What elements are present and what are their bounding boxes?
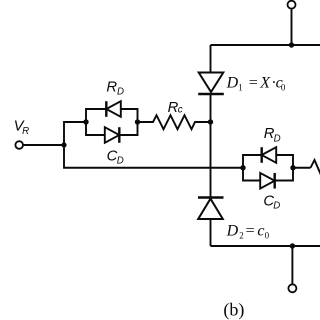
diode RD right (points left): [262, 147, 277, 163]
wire D2 anode lead: [210, 219, 212, 246]
svg-text:D: D: [117, 86, 124, 97]
wire VR input: [23, 144, 64, 146]
node right pair right: [290, 165, 295, 170]
node left pair right: [135, 119, 140, 124]
terminal VR: [15, 141, 23, 149]
label D1 equation: [226, 75, 286, 93]
label D2 equation: [226, 222, 270, 240]
diode RD left (points left): [106, 101, 121, 117]
wire bottom terminal stem: [291, 246, 293, 284]
wire input lower branch to right pair: [64, 145, 243, 168]
wire D1 cathode to D2 cathode: [210, 94, 212, 198]
node right pair left: [240, 165, 245, 170]
node left pair left: [83, 119, 88, 124]
terminal top: [288, 1, 296, 9]
svg-text:D: D: [117, 156, 124, 167]
wire bottom rail: [211, 245, 320, 247]
svg-text:R: R: [22, 126, 29, 137]
svg-text:1: 1: [238, 83, 243, 93]
diode D1 triangle: [199, 73, 224, 93]
svg-text:D: D: [226, 75, 239, 92]
label RD right: [264, 126, 281, 144]
diode D1 cathode bar: [198, 93, 224, 96]
svg-text:=: =: [249, 75, 258, 92]
node top rail junction: [289, 42, 294, 47]
label Rc: [168, 100, 183, 116]
svg-text:D: D: [226, 222, 239, 239]
wire input upper branch: [64, 122, 86, 145]
svg-text:=: =: [246, 222, 255, 239]
node VR input junction: [61, 142, 66, 147]
svg-text:0: 0: [281, 83, 286, 93]
resistor Rc: [138, 115, 211, 129]
terminal bottom: [288, 284, 296, 292]
wire top rail: [211, 44, 320, 46]
svg-text:0: 0: [265, 230, 270, 240]
svg-text:D: D: [273, 200, 280, 211]
diode D2 cathode bar: [198, 196, 224, 199]
svg-text:2: 2: [239, 231, 244, 241]
label CD right: [263, 194, 280, 212]
label CD left: [107, 149, 124, 167]
svg-text:(b): (b): [223, 300, 244, 320]
node bottom rail junction: [290, 243, 295, 248]
svg-text:D: D: [274, 134, 281, 145]
svg-text:X: X: [259, 75, 271, 92]
wire top terminal stem: [291, 9, 293, 45]
resistor partial at right edge: [311, 160, 320, 175]
wire middle vertical (D1 anode lead): [210, 45, 212, 73]
diode D2 triangle: [198, 199, 223, 219]
wire right pair to edge resistor: [293, 167, 311, 169]
diode CD left (points right): [105, 127, 120, 143]
svg-text:c: c: [257, 222, 264, 239]
svg-text:R: R: [106, 80, 117, 96]
label VR: [14, 119, 30, 138]
wire left pair loop: [86, 109, 138, 135]
label RD left: [106, 80, 124, 98]
svg-text:c: c: [178, 105, 183, 116]
diode CD right (points right): [260, 173, 275, 189]
wire right pair loop: [243, 155, 293, 181]
node Rc-D1 junction: [208, 119, 213, 124]
